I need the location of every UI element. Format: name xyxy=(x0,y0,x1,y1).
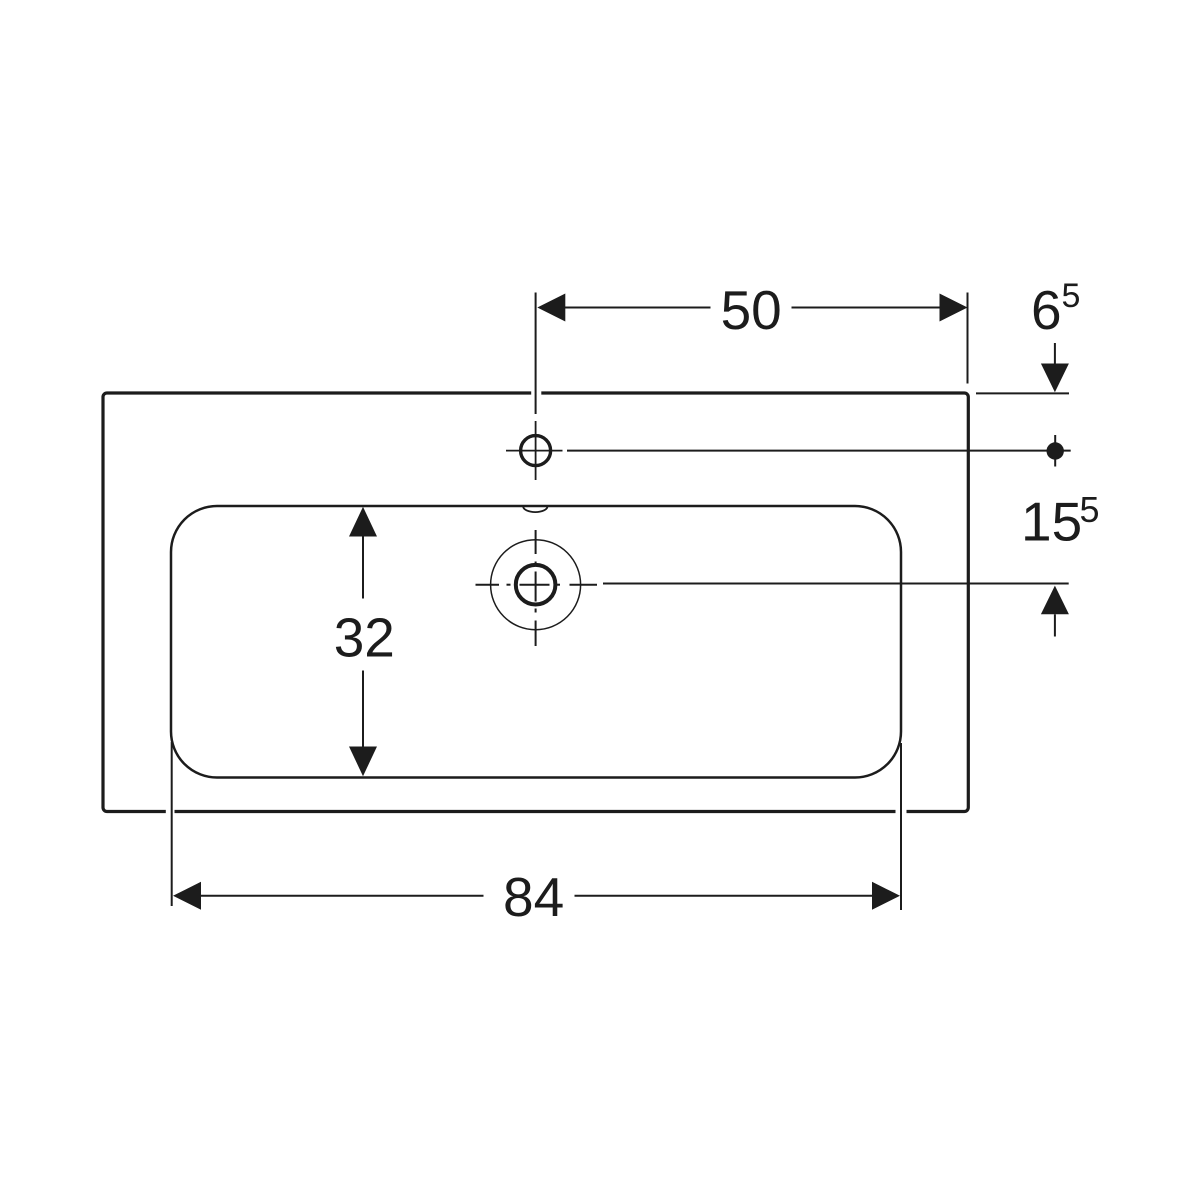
dimension 50 line xyxy=(565,307,940,309)
tap hole extension line up xyxy=(535,293,537,415)
dimension 84 line xyxy=(200,895,873,897)
tap hole crosshair vertical xyxy=(535,421,537,480)
svg-text:32: 32 xyxy=(334,607,395,669)
dimension 50 right arrow xyxy=(940,294,968,322)
svg-text:50: 50 xyxy=(721,279,782,341)
washbasin counter outline xyxy=(103,393,968,812)
dimension 50 right extension line xyxy=(967,293,969,384)
dimension 32 label xyxy=(334,607,395,669)
svg-text:6: 6 xyxy=(1031,279,1062,341)
tap hole crosshair horizontal xyxy=(506,450,563,452)
dimension 50 left arrow xyxy=(537,294,565,322)
svg-text:84: 84 xyxy=(503,866,564,928)
dimension 15.5 arrow up xyxy=(1041,586,1069,637)
dimension 84 label xyxy=(503,866,564,928)
dimension 50 label xyxy=(721,279,782,341)
counter top edge reference line right xyxy=(976,392,1069,394)
drain outer circle xyxy=(491,540,581,630)
dimension 6.5 arrow down xyxy=(1041,343,1069,392)
dimension 15.5 label xyxy=(1021,489,1100,553)
dimension 84 left arrow xyxy=(173,882,201,910)
svg-text:5: 5 xyxy=(1062,277,1081,315)
dimension 84 right extension line xyxy=(900,743,902,910)
svg-text:5: 5 xyxy=(1080,489,1100,530)
svg-text:15: 15 xyxy=(1021,491,1082,553)
drain centerline vertical xyxy=(535,530,537,646)
tap hole reference line to right xyxy=(567,450,1071,452)
dimension 6.5 label xyxy=(1031,277,1080,341)
reference dot xyxy=(1047,435,1064,467)
basin bowl outline xyxy=(171,506,901,778)
dimension 32 bottom arrow xyxy=(349,747,377,777)
drain inner circle xyxy=(516,565,556,605)
drain centerline horizontal xyxy=(476,584,598,586)
dimension 84 right arrow xyxy=(872,882,900,910)
halo gap in counter bottom edge at right 84 extension crossing xyxy=(896,809,907,814)
overflow notch xyxy=(523,507,547,513)
dimension 84 left extension line xyxy=(171,742,173,906)
drain reference line to right xyxy=(603,583,1069,585)
halo gap in counter top edge at tap extension crossing xyxy=(531,391,541,396)
halo gap in counter bottom edge at left 84 extension crossing xyxy=(166,809,175,814)
dimension 32 line xyxy=(362,537,364,747)
tap hole circle xyxy=(521,436,551,466)
dimension 32 top arrow xyxy=(349,507,377,537)
